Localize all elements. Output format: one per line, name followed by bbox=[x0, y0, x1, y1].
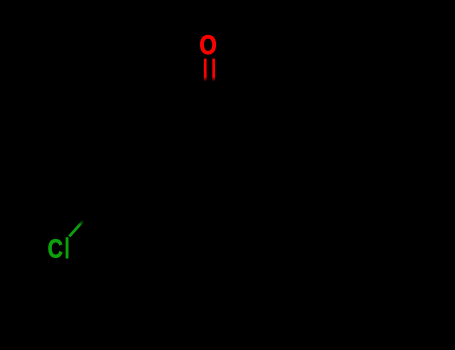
atom label Cl (chlorine) bbox=[48, 236, 69, 265]
svg-text:C: C bbox=[48, 236, 63, 265]
svg-text:O: O bbox=[199, 31, 216, 60]
atom label O (carbonyl oxygen) bbox=[199, 31, 216, 60]
double bond C=O (red half) bbox=[204, 59, 215, 82]
bond C-Cl (green half) bbox=[69, 221, 83, 237]
